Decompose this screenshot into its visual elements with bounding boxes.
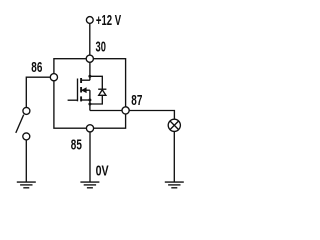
svg-text:86: 86 [31, 59, 42, 75]
svg-text:85: 85 [71, 137, 82, 153]
svg-text:0V: 0V [96, 162, 109, 179]
svg-text:87: 87 [131, 92, 142, 108]
svg-text:+12 V: +12 V [96, 12, 122, 29]
svg-text:30: 30 [96, 38, 107, 55]
